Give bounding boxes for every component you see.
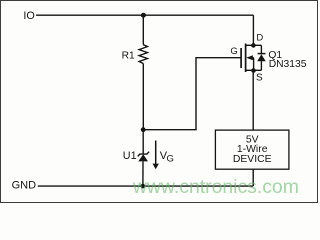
pin label D <box>256 33 263 44</box>
junction dot on GND line <box>141 184 146 189</box>
source stub <box>246 69 262 71</box>
svg-text:U1: U1 <box>123 150 137 162</box>
node GND label <box>12 179 36 191</box>
wire GND horizontal <box>38 185 253 187</box>
wire IO node down to R1 <box>142 15 144 45</box>
wire R1 bottom to gate node <box>142 64 144 130</box>
wire gate node to MOSFET gate <box>143 58 241 130</box>
svg-text:GND: GND <box>12 179 36 191</box>
junction dot on IO line <box>141 13 146 18</box>
wire gate node down to U1 <box>142 130 144 154</box>
label Q1 <box>268 50 282 61</box>
wire U1 anode to GND <box>142 161 144 186</box>
label DN3135 <box>269 59 307 70</box>
pin label S <box>256 73 263 84</box>
transistor Q1 <box>241 44 261 73</box>
svg-text:D: D <box>256 33 263 44</box>
junction dot gate node <box>141 127 146 132</box>
channel plate <box>245 44 247 73</box>
wire IO horizontal <box>36 14 253 16</box>
node IO label <box>23 10 34 22</box>
pin label G <box>230 46 237 57</box>
drain stub <box>246 44 262 46</box>
body stub with arrow <box>250 57 254 59</box>
label VG <box>160 150 174 165</box>
wire IO line down to drain <box>252 15 254 45</box>
wire device box to GND <box>252 169 254 186</box>
label U1 <box>123 150 137 162</box>
body to source link <box>253 58 255 71</box>
svg-text:www.cntronics.com: www.cntronics.com <box>132 176 299 198</box>
gate plate <box>240 48 242 68</box>
svg-text:IO: IO <box>23 10 34 22</box>
label R1 <box>122 51 135 62</box>
device box 5V 1-Wire <box>215 130 289 169</box>
wire source to device box <box>252 71 254 131</box>
arrow VG <box>153 141 159 170</box>
junction dot source <box>251 68 256 73</box>
resistor R1 <box>139 45 147 64</box>
svg-text:DN3135: DN3135 <box>269 59 307 70</box>
svg-text:G: G <box>167 153 174 164</box>
svg-text:R1: R1 <box>122 51 135 62</box>
svg-text:G: G <box>230 46 237 57</box>
junction dot drain <box>251 43 256 48</box>
body diode of Q1 <box>257 45 266 70</box>
svg-text:S: S <box>256 73 263 84</box>
watermark <box>132 176 299 198</box>
svg-text:DEVICE: DEVICE <box>233 154 272 165</box>
zener diode U1 <box>138 152 149 162</box>
